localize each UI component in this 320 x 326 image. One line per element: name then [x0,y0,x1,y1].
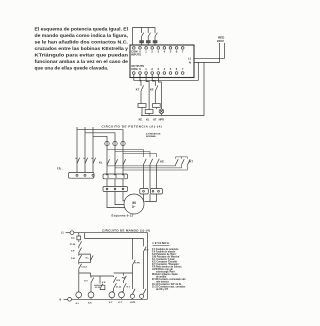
wire top bus [133,28,155,46]
contact S.M [71,254,82,264]
second rail [85,233,144,241]
wire out2 [152,74,155,86]
svg-text:4: 4 [164,49,166,53]
svg-text:3~: 3~ [132,205,136,209]
branch bus upper [91,273,114,276]
wires boxes to motor [144,194,157,202]
coil KT [153,104,161,110]
contact KT NC [136,85,144,103]
output terminals [131,64,184,74]
terminal L1 [61,231,74,235]
svg-text:4: 4 [164,67,166,71]
coil KL [76,292,82,299]
svg-text:K.T: K.T [118,302,122,304]
fuse F2 [113,141,117,145]
thermal elements box [103,174,128,179]
wire N down to coil bus [141,62,204,115]
wire L1 [194,43,225,58]
coil KT [109,292,115,299]
svg-text:que una de ellas quede clavada: que una de ellas quede clavada. [35,65,109,71]
contact 97-98 [70,241,82,248]
lamp col mid bottom [130,289,135,300]
svg-text:3: 3 [158,49,160,53]
svg-text:INPUTS: INPUTS [131,53,141,57]
note a traves de bornas [146,132,161,138]
terminal N [60,297,72,301]
wire output COM to N [185,62,198,80]
coil labels [76,302,136,305]
wire N [194,43,220,62]
svg-text:HPR: HPR [159,118,164,121]
svg-text:KL: KL [146,118,150,121]
svg-text:KT: KT [136,88,140,91]
svg-text:KT: KT [190,160,194,164]
wire out3 [158,74,161,109]
terminal box [103,187,128,192]
wire out0 [140,74,141,86]
fuse F1 [105,141,109,145]
svg-text:K.T: K.T [145,250,149,252]
wires KT back to phases [107,165,188,170]
svg-text:21-22: 21-22 [95,287,101,289]
svg-text:N: N [189,60,191,64]
svg-text:3: 3 [158,67,160,71]
svg-text:funcionar ambas a la vez en el: funcionar ambas a la vez en el caso de [35,59,129,65]
wire mid columns [107,146,123,174]
svg-text:KE: KE [160,160,164,164]
svg-text:COM: COM [131,67,138,71]
svg-text:7: 7 [182,67,184,71]
svg-text:A TRAVES DE: A TRAVES DE [146,132,161,135]
PLC box U1 [130,45,194,78]
svg-text:21-22: 21-22 [116,286,122,288]
motor M1 [124,194,144,214]
coil KT2 [119,292,125,299]
svg-text:KL: KL [99,161,103,165]
col x132.5 contact [133,241,141,289]
contacts disconnector left [75,158,95,164]
svg-text:BORNAS.: BORNAS. [146,135,156,138]
coil KL [145,110,153,116]
contactor KT top bus [176,157,188,159]
svg-text:97-98: 97-98 [70,244,76,246]
svg-text:LEYENDA: LEYENDA [153,241,170,245]
svg-text:CIRCUITO DE MANDO (1)-(4): CIRCUITO DE MANDO (1)-(4) [102,228,150,232]
fuse F4 [71,233,80,242]
thermal relay box left [69,173,95,179]
input terminals [131,47,184,57]
wire out COM stub [134,74,185,80]
contactor KT contacts [176,159,194,165]
contactor KE contacts [144,159,165,189]
svg-text:L1: L1 [61,233,64,235]
svg-text:6: 6 [176,67,178,71]
svg-text:1: 1 [145,67,147,71]
wire to terminal box [107,179,123,187]
pushbutton FR [153,33,158,45]
svg-text:se le han añadido dos contacto: se le han añadido dos contactos N.C. [35,40,129,46]
branch SM parallel loop [79,254,91,263]
svg-text:El esquema de potencia queda: El esquema de potencia queda igual. El [35,27,128,33]
svg-text:F.R.→: F.R.→ [57,167,64,170]
wires into motor [107,192,125,208]
svg-text:H.PR: H.PR [130,302,136,304]
wire feeds to star-delta [107,150,157,157]
svg-text:K.T: K.T [109,302,113,304]
svg-text:K.E: K.E [88,302,92,304]
contact timer col [122,273,131,292]
svg-text:S.P.: S.P. [71,251,75,253]
contact KE NC [150,85,158,103]
supply label RED 220V [217,36,225,43]
wire right to timer col [114,272,133,274]
svg-text:2: 2 [151,49,153,53]
svg-text:KE: KE [139,118,143,121]
coil KE [88,292,94,299]
bottom rail [72,298,148,300]
svg-text:de KE y KT: de KE y KT [156,289,169,291]
node branch to KE [79,273,91,292]
svg-text:KT: KT [153,118,157,121]
coil KE [138,104,146,116]
svg-text:5: 5 [170,67,172,71]
svg-text:de mando queda como indica la: de mando queda como indica la figura, [35,33,129,39]
svg-text:KTriángulo para evitar que: KTriángulo para evitar que puedan [35,53,129,59]
svg-text:cruzados entre las bobinas KEs: cruzados entre las bobinas KEstrella y [35,46,129,52]
column mid KE NC crossed [94,276,106,290]
contact KL aux [86,255,94,260]
contact KT NC crossed [84,276,94,292]
svg-text:13-14: 13-14 [81,265,87,268]
svg-text:7: 7 [182,49,184,53]
svg-text:F.4: F.4 [71,237,75,240]
svg-text:KE: KE [150,88,154,91]
svg-text:6: 6 [176,49,178,53]
pushbutton S1 [139,28,144,46]
svg-text:CIRCUITO DE POTENCIA (A)-(4): CIRCUITO DE POTENCIA (A)-(4) [102,124,163,128]
svg-text:1: 1 [145,49,147,53]
contact S.P [71,248,82,255]
svg-text:K.T: K.T [127,286,131,288]
top rail [74,233,148,300]
paragraph [35,27,129,72]
svg-text:S.M.: S.M. [71,258,76,260]
contact KT col A [112,276,122,292]
terminals L1 N [188,56,192,64]
lamp HPR [159,109,164,116]
contact KT right col [143,238,149,289]
contactor KL contacts [99,159,126,165]
svg-text:M: M [132,200,136,205]
contact 13-14 [79,264,88,273]
svg-text:K.E: K.E [102,282,106,284]
wire phase L1 [77,127,123,173]
svg-text:OUTPUTS: OUTPUTS [131,64,144,68]
terminal boxes motor side [140,189,163,195]
wire phase L2 [85,127,115,173]
fuse F3 [121,141,125,145]
svg-text:Esquema 9-12: Esquema 9-12 [112,214,134,218]
labels KE KL KT HPR [139,118,164,121]
svg-text:L1: L1 [188,56,192,60]
pushbutton S2 [146,28,151,46]
wire phase L3 [93,127,107,173]
svg-text:5: 5 [170,49,172,53]
svg-text:N: N [60,299,62,301]
svg-text:K.L: K.L [86,257,90,259]
svg-text:K.E: K.E [116,280,120,282]
svg-text:K.T: K.T [84,281,88,283]
wire out1 [146,74,149,109]
svg-text:K.L: K.L [76,303,80,305]
lamp col right bottom [140,289,147,300]
svg-text:220V: 220V [217,39,224,43]
svg-text:H.PR: H.PR [135,263,141,265]
svg-text:2: 2 [151,67,153,71]
